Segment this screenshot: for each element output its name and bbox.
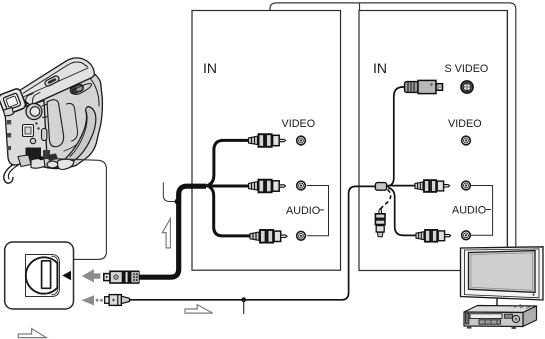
buttons — [479, 320, 501, 324]
audio bracket (right panel) — [471, 186, 493, 236]
camcorder — [0, 58, 102, 183]
gray arrow big — [82, 269, 101, 282]
back panel — [5, 101, 47, 166]
RCA jack VIDEO right — [462, 136, 471, 145]
leader tick below thin cable — [243, 300, 245, 314]
main body — [26, 72, 102, 169]
right RCA plug audio2 — [416, 230, 451, 242]
S-video jack — [461, 81, 473, 93]
gray arrow small — [82, 295, 95, 305]
dashed unused video branch — [380, 190, 391, 213]
audio dash (right panel) — [486, 209, 491, 211]
RCA jack AUDIO2 left — [297, 231, 306, 240]
left details — [466, 314, 469, 325]
camera leader line — [41, 158, 106, 259]
cables to TV — [506, 11, 508, 249]
audio bracket (left panel) — [307, 186, 329, 236]
big A/V plug — [104, 271, 139, 283]
small plug — [105, 295, 130, 306]
ferrite bead — [375, 183, 386, 191]
feet — [467, 326, 472, 329]
strap — [54, 107, 96, 169]
lid pill button — [44, 75, 60, 87]
s-video cable — [386, 87, 406, 186]
svg-text:VIDEO: VIDEO — [282, 118, 316, 130]
TV stand — [496, 298, 498, 307]
flat arrow middle — [185, 305, 213, 314]
cassette lid — [20, 58, 95, 106]
right audio2 cable — [388, 188, 417, 236]
cable branch video — [205, 140, 249, 186]
svg-text:IN: IN — [203, 60, 217, 76]
bracket tick — [359, 3, 361, 11]
viewfinder eyecup — [0, 88, 27, 116]
RCA plug audio1 left — [249, 180, 286, 193]
flat arrow bottom-left — [18, 329, 46, 338]
svg-text:AUDIO: AUDIO — [452, 205, 486, 217]
svg-text:S VIDEO: S VIDEO — [445, 63, 489, 75]
RCA jack AUDIO1 left — [297, 181, 306, 190]
RCA plug audio2 left — [250, 230, 287, 243]
eyepiece barrel — [26, 104, 42, 120]
side switch — [69, 83, 84, 95]
vent lines — [514, 305, 533, 309]
s-video plug — [405, 80, 443, 93]
bottom connector block — [26, 148, 42, 160]
RCA plug video left — [249, 134, 286, 147]
cable branch audio1 — [205, 185, 249, 188]
dotted gap — [96, 299, 99, 302]
RCA jack AUDIO1 right — [462, 181, 471, 190]
audio dash (left panel) — [319, 209, 325, 211]
right audio1 cable — [386, 185, 416, 187]
VCR — [464, 305, 537, 329]
left panel — [192, 11, 341, 271]
hanging strap curl — [4, 162, 17, 183]
right panel — [359, 11, 507, 271]
RCA jack VIDEO left — [297, 136, 306, 145]
viewfinder foot — [4, 108, 14, 116]
up arrow (hollow) — [162, 219, 170, 248]
jack door icon — [26, 255, 60, 297]
thick A/V cable — [137, 186, 206, 277]
knob — [512, 315, 519, 322]
jack circle icon — [26, 257, 58, 293]
leader dot on thick cable — [175, 199, 180, 204]
A/V connector box — [5, 242, 74, 309]
cassette slot — [470, 314, 502, 319]
TV — [461, 11, 544, 307]
cable branch audio2 — [209, 187, 251, 236]
back panel details — [23, 125, 34, 137]
jack slot icon — [42, 261, 51, 289]
bracket over panels — [270, 3, 516, 247]
leader dot on thin cable — [241, 297, 246, 302]
body shading curves — [47, 100, 64, 147]
TV screen — [469, 251, 536, 293]
right RCA plug audio1 — [415, 180, 450, 192]
leader line to thick cable — [163, 183, 175, 202]
black pointer triangle — [62, 271, 71, 280]
svg-text:AUDIO: AUDIO — [286, 205, 320, 217]
dangling video plug (vertical) — [375, 209, 385, 237]
camera leader dot — [39, 156, 43, 160]
thin A/V cable — [130, 186, 377, 299]
svg-text:IN: IN — [373, 60, 387, 76]
RCA jack AUDIO2 right — [462, 231, 471, 240]
svg-text:VIDEO: VIDEO — [448, 118, 482, 130]
upper body slot — [73, 84, 92, 95]
